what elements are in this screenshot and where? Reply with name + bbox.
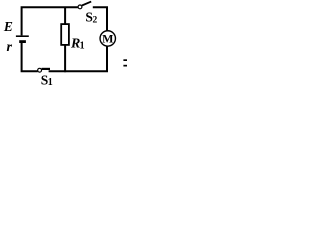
text fragment dashes at right edge <box>123 59 127 61</box>
svg-text:1: 1 <box>80 41 85 52</box>
switch S1 pivot circle <box>38 68 42 72</box>
switch S2 open blade <box>82 2 91 6</box>
wire top-right: from S2 to top-right corner and down to motor <box>93 7 107 31</box>
resistor R1 box <box>61 24 69 45</box>
wire right-bottom: motor to bottom-right corner and left to S1 blade <box>49 46 107 71</box>
battery E long plate (positive) <box>16 35 29 37</box>
motor M1 circle <box>100 31 115 46</box>
switch S2 pivot circle <box>78 5 82 9</box>
svg-text:M: M <box>102 31 113 45</box>
svg-text:r: r <box>7 40 13 55</box>
wire middle branch bottom: R1 down to bottom wire <box>64 45 66 72</box>
wire top-left: left branch up + top wire to S2 <box>22 7 78 35</box>
wire bottom-left: S1 to bottom-left corner and up to battery <box>22 43 38 71</box>
svg-text:1: 1 <box>48 77 53 88</box>
svg-text:2: 2 <box>93 15 98 25</box>
svg-text:E: E <box>3 19 13 34</box>
battery E short plate (negative) <box>19 40 26 43</box>
switch S1 closed blade <box>42 68 50 70</box>
wire middle branch top: top wire down to R1 <box>64 7 66 24</box>
